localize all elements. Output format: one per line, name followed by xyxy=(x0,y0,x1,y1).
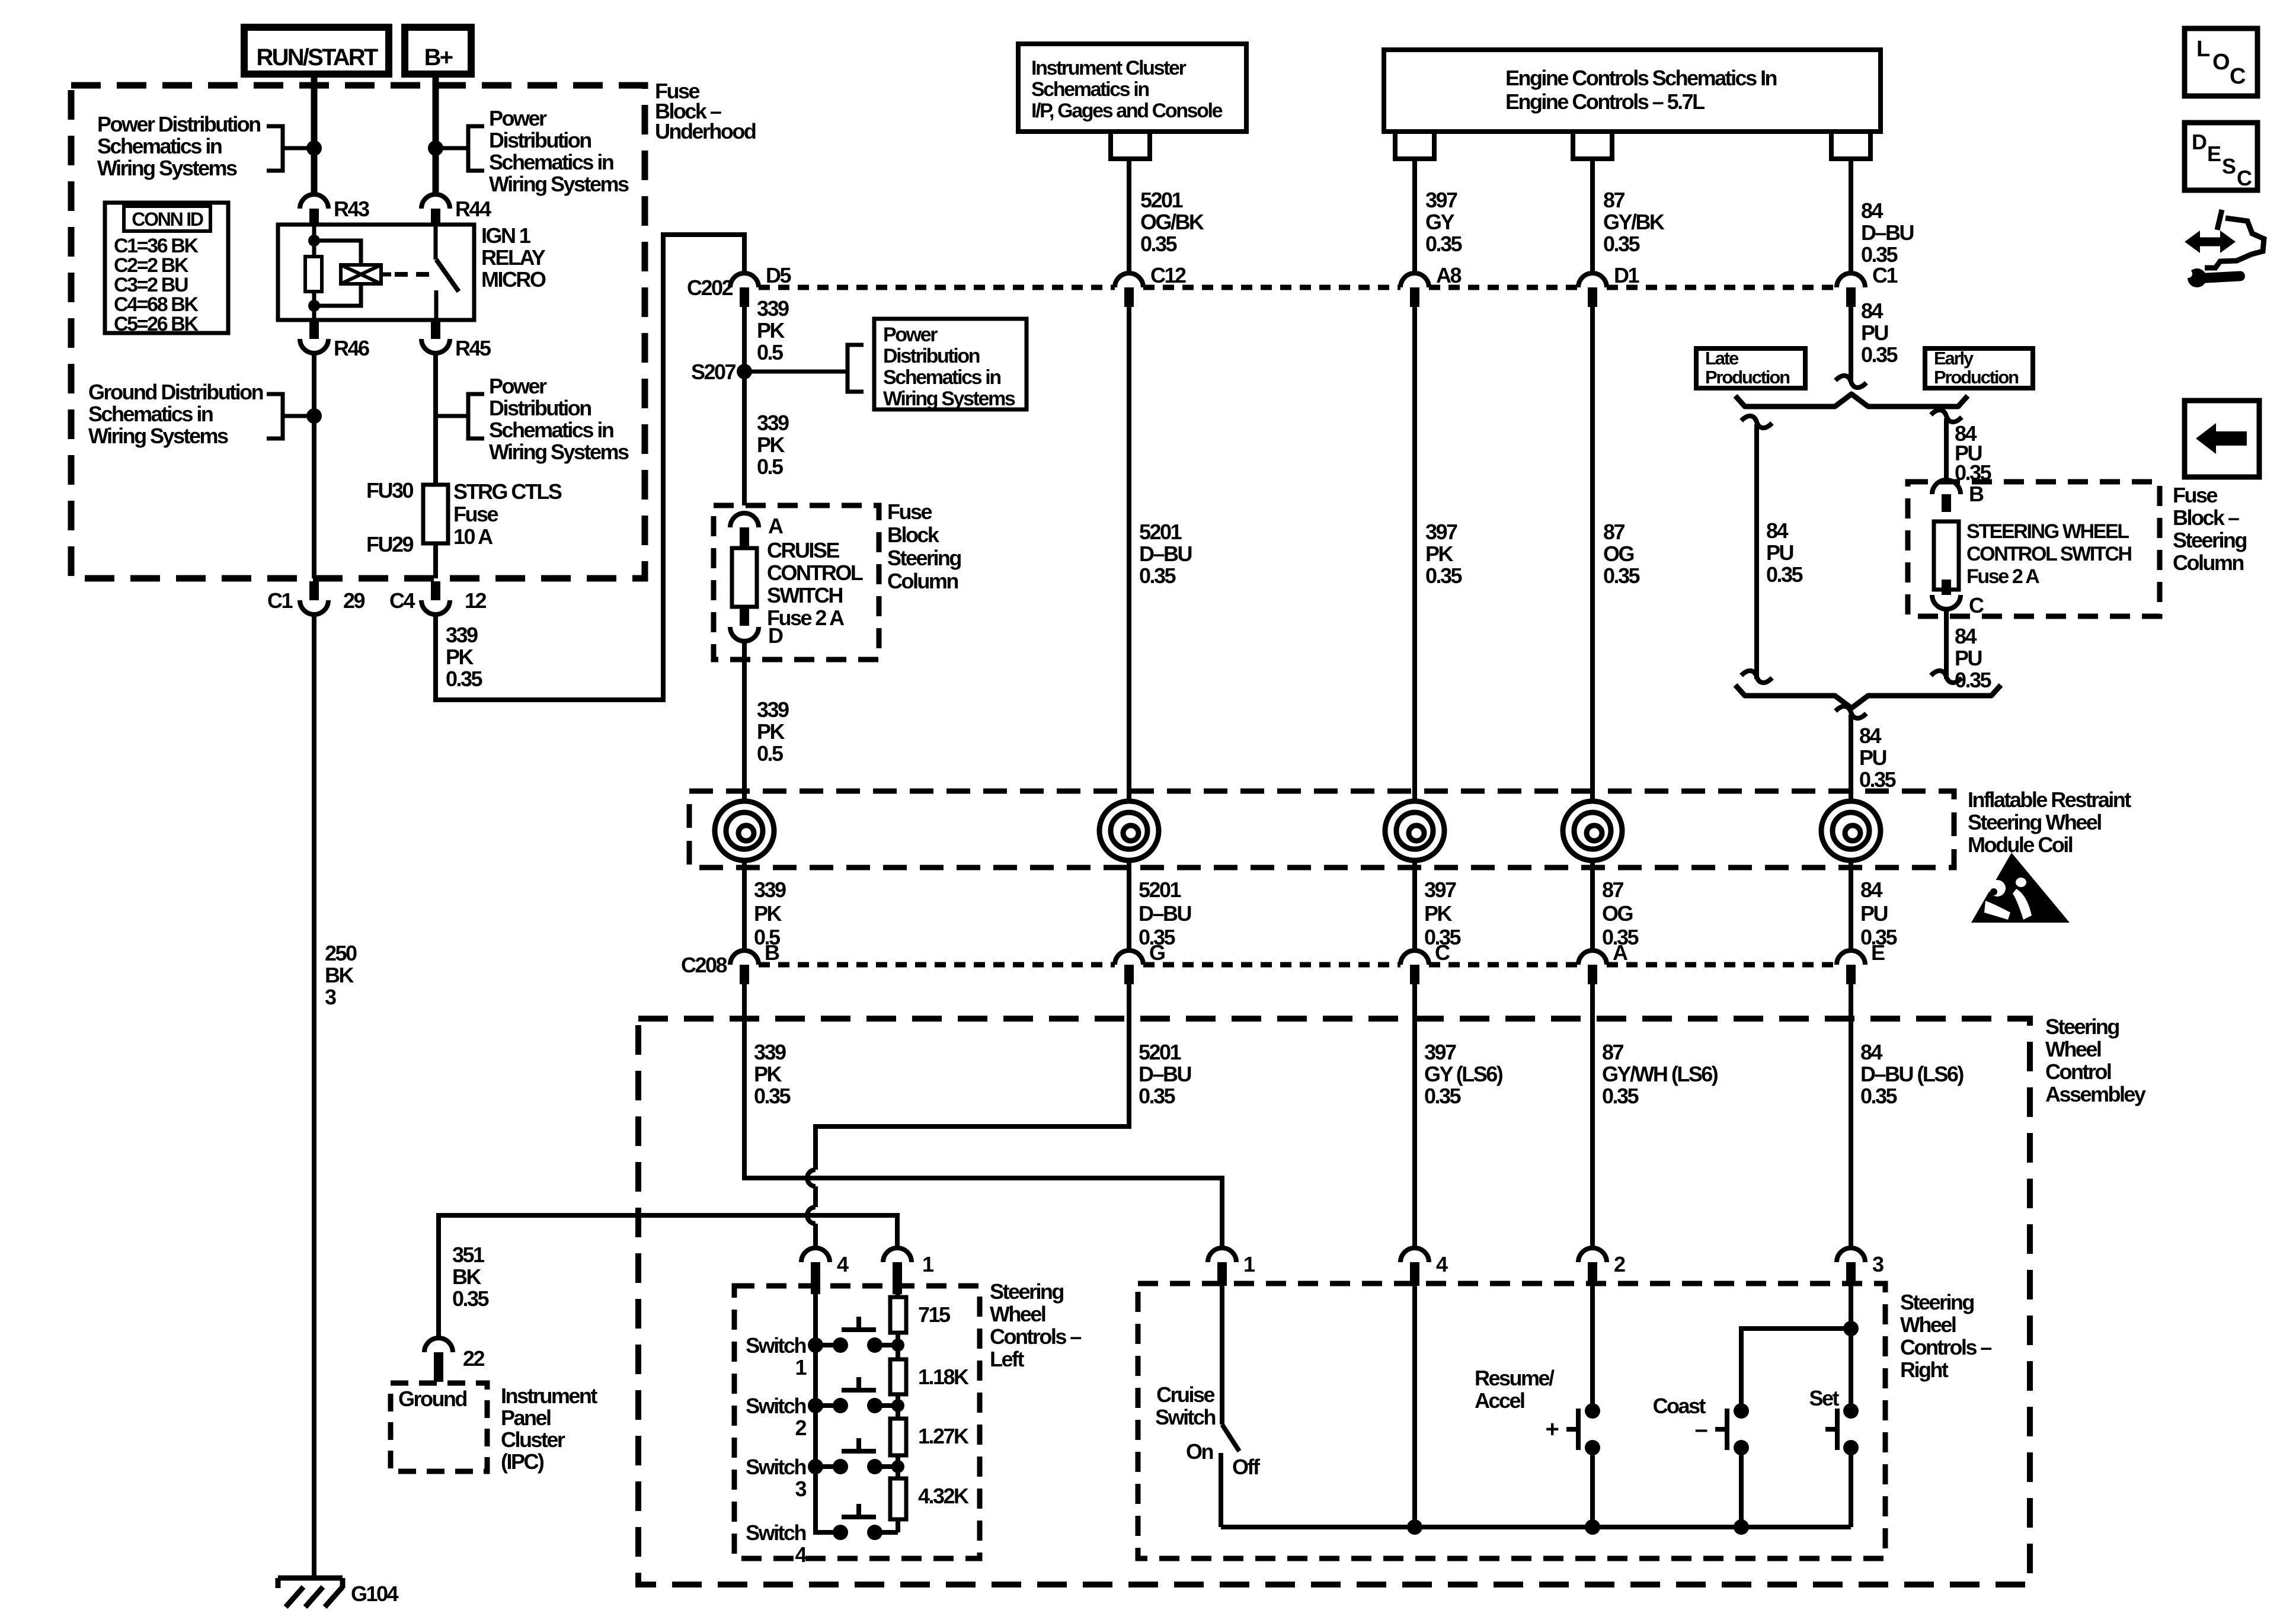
connector C208 pin B xyxy=(681,940,779,984)
svg-text:Power: Power xyxy=(883,324,938,346)
svg-text:Fuse 2 A: Fuse 2 A xyxy=(1966,565,2039,588)
brace merge bottom xyxy=(1735,685,2001,708)
wire 84 to set/coast node xyxy=(1849,1286,1853,1329)
wire early branch below C xyxy=(1944,609,1949,679)
svg-text:PK: PK xyxy=(757,719,785,744)
wire label 5201 D&#8211;BU (assembly) xyxy=(1139,1040,1191,1108)
svg-text:Panel: Panel xyxy=(501,1406,551,1430)
svg-text:2: 2 xyxy=(795,1416,806,1440)
wire chain segment 4 xyxy=(896,1467,900,1532)
wire curl late branch bottom xyxy=(1741,671,1772,683)
switch Set xyxy=(1809,1386,1859,1455)
svg-text:Wiring Systems: Wiring Systems xyxy=(883,388,1015,410)
fuse F1 CRUISE CONTROL SWITCH 2A xyxy=(732,538,863,630)
svg-text:87: 87 xyxy=(1603,520,1625,544)
svg-text:S207: S207 xyxy=(691,360,736,384)
connector C208 pin C xyxy=(1400,940,1450,984)
svg-text:Column: Column xyxy=(887,569,958,593)
svg-text:Control: Control xyxy=(2045,1060,2111,1084)
connector 1 (left) xyxy=(883,1248,934,1294)
svg-text:Wiring Systems: Wiring Systems xyxy=(489,172,629,196)
svg-text:Production: Production xyxy=(1934,367,2019,388)
svg-text:R44: R44 xyxy=(455,197,491,221)
svg-text:Steering: Steering xyxy=(990,1279,1063,1304)
svg-text:0.5: 0.5 xyxy=(757,340,784,364)
wire 397 to connector 4 right xyxy=(1412,984,1417,1248)
svg-text:Cluster: Cluster xyxy=(501,1427,565,1452)
svg-text:Switch: Switch xyxy=(746,1333,805,1358)
box Early Production xyxy=(1925,348,2033,388)
svg-text:SWITCH: SWITCH xyxy=(767,583,842,607)
wire 339 PK to cruise switch xyxy=(744,984,1222,1248)
svg-text:Block: Block xyxy=(887,523,940,547)
connector B (steering fuse) xyxy=(1932,480,1984,512)
label Fuse Block Steering Column (cruise) xyxy=(887,500,961,593)
icon airbag warning triangle xyxy=(1971,853,2070,923)
inductor coil 5 steering wheel module xyxy=(1821,801,1881,860)
switch 4 (left controls) xyxy=(746,1504,898,1567)
node power distribution junction (B+) xyxy=(428,140,443,156)
connector A (cruise fuse) xyxy=(730,513,784,549)
svg-text:0.35: 0.35 xyxy=(1424,1084,1461,1108)
svg-text:PK: PK xyxy=(757,433,785,457)
wire label 84 D-BU 0.35 xyxy=(1861,199,1913,267)
svg-text:4.32K: 4.32K xyxy=(918,1484,969,1508)
steering wheel controls right dashed box xyxy=(1138,1283,1885,1558)
connector C1 pin 29 xyxy=(267,581,364,614)
icon box arrow left xyxy=(2185,401,2259,477)
wire hop over 351 xyxy=(807,1207,816,1224)
connector C1 (engine) xyxy=(1837,263,1898,307)
note Power Distribution Schematics in Wiring Systems (left) xyxy=(97,112,314,180)
svg-text:C208: C208 xyxy=(681,953,727,977)
svg-text:Power Distribution: Power Distribution xyxy=(97,112,260,136)
svg-text:Steering: Steering xyxy=(2173,528,2246,552)
switch 1 (left controls) xyxy=(746,1317,904,1379)
svg-text:0.35: 0.35 xyxy=(1861,343,1898,367)
wire 87 to resume switch xyxy=(1590,1286,1595,1411)
wire label 84 PU (below coil) xyxy=(1860,878,1897,949)
connector R46 xyxy=(300,321,369,360)
svg-text:Resume/: Resume/ xyxy=(1475,1366,1555,1390)
svg-text:10 A: 10 A xyxy=(453,524,493,549)
wire label 339 PK (assembly) xyxy=(754,1040,791,1108)
relay U1 IGN 1 RELAY MICRO box xyxy=(278,225,474,320)
svg-text:CONN ID: CONN ID xyxy=(132,209,203,230)
inductor coil 1 steering wheel module xyxy=(715,801,774,860)
svg-text:Distribution: Distribution xyxy=(883,345,980,367)
resistor 1.18K ohm xyxy=(890,1359,969,1394)
relay switch blade xyxy=(436,260,459,292)
switch Resume/Accel xyxy=(1475,1366,1600,1455)
svg-text:RELAY: RELAY xyxy=(481,245,546,270)
svg-text:D5: D5 xyxy=(766,263,791,287)
connector 1 (cruise) xyxy=(1208,1248,1255,1286)
wire 339 PK C202 to S207 xyxy=(742,307,747,505)
svg-text:0.35: 0.35 xyxy=(1425,232,1462,256)
svg-text:351: 351 xyxy=(452,1243,485,1267)
fuse block steering column dashed box (cruise) xyxy=(714,505,879,660)
svg-text:0.35: 0.35 xyxy=(452,1286,489,1311)
svg-text:STRG CTLS: STRG CTLS xyxy=(453,479,562,504)
wire late production branch xyxy=(1754,424,1759,679)
svg-text:Wheel: Wheel xyxy=(2045,1037,2101,1061)
svg-text:Cruise: Cruise xyxy=(1156,1382,1214,1407)
label Steering Wheel Controls - Left xyxy=(990,1279,1081,1371)
connector 4 (right) xyxy=(1400,1248,1448,1286)
node S207 splice xyxy=(691,360,752,384)
connector 2 (right) xyxy=(1578,1248,1625,1286)
svg-text:C5=26 BK: C5=26 BK xyxy=(114,313,199,335)
wire label 351 BK 0.35 xyxy=(452,1243,489,1311)
node relay bottom junction xyxy=(308,300,320,312)
svg-text:87: 87 xyxy=(1602,878,1624,902)
wire label 84 PU 0.35 (early branch) xyxy=(1955,421,1991,485)
svg-text:D1: D1 xyxy=(1614,263,1639,287)
svg-text:Instrument: Instrument xyxy=(501,1384,597,1408)
svg-text:C12: C12 xyxy=(1150,263,1186,287)
svg-text:0.35: 0.35 xyxy=(1860,1084,1897,1108)
net C202 connector row dotted line xyxy=(759,285,1837,290)
svg-text:0.35: 0.35 xyxy=(1603,564,1640,588)
label Inflatable Restraint Steering Wheel Module Coil xyxy=(1968,788,2131,857)
label IGN 1 RELAY MICRO xyxy=(481,223,546,292)
svg-text:Early: Early xyxy=(1934,348,1974,369)
node resume bus junction xyxy=(1585,1519,1600,1535)
svg-text:4: 4 xyxy=(795,1542,807,1567)
ground G104 xyxy=(278,1578,398,1607)
node 397 bus junction xyxy=(1407,1519,1422,1535)
svg-text:Accel: Accel xyxy=(1475,1388,1524,1413)
svg-text:(IPC): (IPC) xyxy=(501,1449,544,1474)
connector C4 pin 12 xyxy=(389,581,486,614)
wire hop over 339 xyxy=(807,1170,816,1186)
svg-text:Late: Late xyxy=(1705,348,1739,369)
svg-text:OG/BK: OG/BK xyxy=(1140,210,1204,234)
svg-text:D–BU: D–BU xyxy=(1139,542,1191,566)
svg-text:4: 4 xyxy=(1436,1252,1448,1276)
svg-text:S: S xyxy=(2222,154,2236,178)
wire 397 PK A8 to coil xyxy=(1412,307,1417,801)
svg-text:C1: C1 xyxy=(267,588,293,613)
wire early branch to B xyxy=(1944,418,1949,480)
svg-text:MICRO: MICRO xyxy=(481,267,546,292)
svg-text:3: 3 xyxy=(325,985,336,1009)
switch 3 (left controls) xyxy=(746,1438,904,1501)
svg-text:D–BU: D–BU xyxy=(1861,220,1913,245)
svg-text:397: 397 xyxy=(1424,1040,1456,1064)
wire coast branch xyxy=(1741,1329,1851,1411)
wire 84 PU C1 to split xyxy=(1849,307,1853,380)
svg-text:Fuse: Fuse xyxy=(2173,483,2217,507)
connector C208 pin E xyxy=(1837,940,1885,984)
wire 339 PK D to coil xyxy=(742,641,747,801)
svg-text:G104: G104 xyxy=(351,1582,398,1606)
svg-text:PU: PU xyxy=(1955,646,1981,670)
connector D1 xyxy=(1578,263,1639,307)
svg-text:C202: C202 xyxy=(687,276,733,300)
svg-text:87: 87 xyxy=(1602,1040,1624,1064)
svg-text:IGN 1: IGN 1 xyxy=(481,223,531,248)
wire R45 to fuse FU30 xyxy=(433,353,438,485)
svg-text:Fuse: Fuse xyxy=(887,500,932,524)
svg-text:Engine Controls Schematics In: Engine Controls Schematics In xyxy=(1505,66,1777,90)
wire curl early branch top xyxy=(1931,410,1962,422)
svg-text:Controls –: Controls – xyxy=(990,1324,1081,1349)
svg-text:+: + xyxy=(1545,1416,1558,1442)
svg-text:339: 339 xyxy=(757,697,789,722)
svg-text:397: 397 xyxy=(1425,188,1457,212)
resistor 715 ohm xyxy=(890,1297,951,1333)
svg-text:Schematics in: Schematics in xyxy=(88,402,213,426)
relay switch wire xyxy=(436,225,436,320)
node coast bus junction xyxy=(1734,1519,1749,1535)
svg-text:D–BU: D–BU xyxy=(1139,1062,1191,1086)
node relay top junction xyxy=(308,235,320,247)
svg-text:Power: Power xyxy=(489,374,547,398)
wire label 339 PK 0.35 (below C4) xyxy=(446,623,482,691)
wire 5201 D-BU C12 to coil xyxy=(1127,307,1131,801)
box Late Production xyxy=(1696,348,1805,388)
connector A8 xyxy=(1400,263,1461,307)
power feed box RUN/START xyxy=(244,27,389,74)
svg-text:Distribution: Distribution xyxy=(489,396,591,420)
switch cruise on/off xyxy=(1155,1286,1261,1527)
wire 84 coil to C208 xyxy=(1849,860,1853,952)
svg-text:PK: PK xyxy=(754,901,782,926)
connector 4 (left) xyxy=(801,1248,849,1294)
wire curl early branch bottom xyxy=(1931,671,1962,683)
wire 84 to connector 3 xyxy=(1849,984,1853,1248)
wire left chain top xyxy=(897,1294,898,1297)
svg-text:5201: 5201 xyxy=(1139,520,1182,544)
svg-text:Switch: Switch xyxy=(1155,1405,1215,1429)
wire set branch xyxy=(1849,1329,1853,1411)
fuse FU30 STRG CTLS 10A xyxy=(366,478,562,556)
svg-text:O: O xyxy=(2212,50,2229,75)
fuse block steering column dashed box (right) xyxy=(1908,482,2160,616)
wire 397 GY to A8 xyxy=(1412,159,1417,273)
svg-text:Engine Controls – 5.7L: Engine Controls – 5.7L xyxy=(1505,89,1705,114)
wire 397 to bus xyxy=(1412,1286,1417,1527)
svg-text:PK: PK xyxy=(754,1062,782,1086)
wire left switch bus xyxy=(816,1294,840,1532)
svg-text:0.35: 0.35 xyxy=(1139,564,1176,588)
wire label 339 PK 0.5 (below fuse box) xyxy=(757,697,789,766)
wire label 84 D&#8211;BU (LS6) (assembly) xyxy=(1860,1040,1964,1108)
wire curl late branch top xyxy=(1741,416,1772,428)
connector C12 xyxy=(1115,263,1186,307)
wire 87 coil to C208 xyxy=(1590,860,1595,952)
svg-text:Wheel: Wheel xyxy=(990,1302,1045,1326)
svg-text:B: B xyxy=(765,940,779,965)
svg-text:Controls –: Controls – xyxy=(1900,1335,1991,1359)
relay coil feed wire xyxy=(312,225,316,320)
resistor 1.27K ohm xyxy=(890,1419,969,1455)
svg-text:Column: Column xyxy=(2173,550,2243,575)
wire C4 to C202 wrap-around xyxy=(436,235,744,700)
svg-text:C4: C4 xyxy=(389,588,415,613)
wire label 84 PU 0.35 (above split) xyxy=(1861,299,1898,367)
svg-text:0.35: 0.35 xyxy=(1859,767,1896,792)
svg-text:CRUISE: CRUISE xyxy=(767,538,839,562)
svg-text:22: 22 xyxy=(463,1346,485,1371)
note Power Distribution Schematics in Wiring Systems (B+ bottom) xyxy=(436,374,629,464)
svg-text:Assembley: Assembley xyxy=(2045,1082,2146,1106)
svg-text:5201: 5201 xyxy=(1139,878,1182,902)
wire 84 D-BU to C1 xyxy=(1849,159,1853,273)
svg-text:PU: PU xyxy=(1766,540,1793,565)
svg-text:Wheel: Wheel xyxy=(1900,1313,1956,1337)
svg-text:D–BU: D–BU xyxy=(1139,901,1191,926)
relay mechanical link dashes xyxy=(395,272,433,277)
switch 2 (left controls) xyxy=(746,1377,904,1440)
svg-text:Schematics in: Schematics in xyxy=(97,134,222,158)
svg-text:84: 84 xyxy=(1766,518,1789,543)
svg-text:0.5: 0.5 xyxy=(757,454,784,479)
wire R46 to C1 xyxy=(312,353,316,578)
svg-text:Off: Off xyxy=(1232,1455,1261,1479)
svg-text:PK: PK xyxy=(1424,901,1452,926)
svg-text:0.35: 0.35 xyxy=(754,1084,791,1108)
svg-text:12: 12 xyxy=(465,588,487,613)
label Steering Wheel Controls - Right xyxy=(1900,1290,1991,1382)
svg-text:STEERING WHEEL: STEERING WHEEL xyxy=(1966,520,2129,543)
svg-text:GY: GY xyxy=(1425,210,1454,234)
svg-text:339: 339 xyxy=(754,878,786,902)
svg-text:BK: BK xyxy=(325,963,354,987)
svg-text:D: D xyxy=(2192,130,2207,154)
svg-text:Module Coil: Module Coil xyxy=(1968,833,2073,857)
svg-text:Steering: Steering xyxy=(887,546,961,570)
wire label 250 BK 3 xyxy=(325,941,357,1009)
svg-text:CONTROL: CONTROL xyxy=(767,561,863,585)
svg-text:Switch: Switch xyxy=(746,1521,805,1545)
fuse F2 STEERING WHEEL CONTROL SWITCH 2A xyxy=(1934,520,2132,590)
wire label 5201 OG/BK 0.35 xyxy=(1140,188,1204,256)
connector 3 (right) xyxy=(1837,1248,1884,1286)
svg-text:1: 1 xyxy=(795,1355,807,1379)
svg-text:GY/WH (LS6): GY/WH (LS6) xyxy=(1602,1062,1718,1086)
svg-text:I/P, Gages and Console: I/P, Gages and Console xyxy=(1031,100,1223,122)
table CONN ID xyxy=(105,203,228,335)
wire resume to bus xyxy=(1590,1448,1595,1527)
svg-text:On: On xyxy=(1186,1439,1213,1464)
wire label 87 GY/BK 0.35 xyxy=(1603,188,1665,256)
svg-text:1.27K: 1.27K xyxy=(918,1424,969,1448)
svg-text:C: C xyxy=(1969,593,1984,617)
svg-text:397: 397 xyxy=(1424,878,1456,902)
wire label 87 GY/WH (LS6) (assembly) xyxy=(1602,1040,1718,1108)
svg-text:Inflatable Restraint: Inflatable Restraint xyxy=(1968,788,2131,812)
wire 87 to connector 2 xyxy=(1590,984,1595,1248)
svg-text:Schematics in: Schematics in xyxy=(489,418,613,442)
wire label 84 PU 0.35 (above coil) xyxy=(1859,724,1896,792)
wire 5201 coil to C208 xyxy=(1127,860,1131,952)
svg-text:84: 84 xyxy=(1955,624,1977,648)
svg-text:1: 1 xyxy=(1243,1252,1255,1276)
resistor relay internal xyxy=(305,257,322,292)
svg-text:339: 339 xyxy=(446,623,478,647)
wire label 84 PU 0.35 (below C) xyxy=(1955,624,1991,692)
connector R45 xyxy=(421,321,491,360)
svg-text:339: 339 xyxy=(754,1040,786,1064)
svg-text:Right: Right xyxy=(1900,1358,1949,1382)
svg-text:0.35: 0.35 xyxy=(1603,232,1640,256)
wire label 339 PK (below coil) xyxy=(754,878,786,949)
wire curl below merge xyxy=(1835,706,1866,718)
svg-text:Wiring Systems: Wiring Systems xyxy=(97,156,237,180)
svg-text:Switch: Switch xyxy=(746,1455,805,1479)
svg-text:Production: Production xyxy=(1705,367,1790,388)
module box Engine Controls xyxy=(1384,50,1881,132)
svg-text:PU: PU xyxy=(1859,745,1886,770)
svg-text:339: 339 xyxy=(757,411,789,435)
wire label 5201 D-BU 0.35 (mid) xyxy=(1139,520,1191,588)
inductor coil 4 steering wheel module xyxy=(1563,801,1622,860)
svg-text:0.35: 0.35 xyxy=(1602,1084,1639,1108)
svg-text:A8: A8 xyxy=(1436,263,1461,287)
wire chain segment 1 xyxy=(896,1294,900,1345)
icon box LOC xyxy=(2185,28,2257,96)
svg-text:OG: OG xyxy=(1603,542,1633,566)
note Ground Distribution Schematics in Wiring Systems xyxy=(88,380,314,448)
svg-text:L: L xyxy=(2196,37,2210,62)
svg-text:Power: Power xyxy=(489,106,547,130)
svg-text:Block –: Block – xyxy=(2173,505,2239,530)
svg-text:4: 4 xyxy=(837,1252,849,1276)
wire label 5201 D&#8211;BU (below coil) xyxy=(1139,878,1191,949)
svg-text:PU: PU xyxy=(1861,321,1888,345)
svg-text:Schematics in: Schematics in xyxy=(883,366,1000,389)
label Steering Wheel Control Assembley xyxy=(2045,1014,2146,1106)
wire RUN/START to R43 xyxy=(311,74,318,196)
inductor coil 2 steering wheel module xyxy=(1099,801,1159,860)
connector D (cruise fuse) xyxy=(730,607,783,648)
module box Instrument Cluster xyxy=(1018,44,1246,132)
wire label 87 OG 0.35 (mid) xyxy=(1603,520,1640,588)
wire fuse to C4 xyxy=(433,543,438,578)
label Ground (IPC) xyxy=(398,1387,466,1411)
connector R43 xyxy=(300,194,369,225)
svg-text:Schematics in: Schematics in xyxy=(1031,78,1149,101)
svg-text:PK: PK xyxy=(757,318,785,343)
fuse block underhood dashed box xyxy=(71,85,645,578)
svg-text:C1: C1 xyxy=(1872,263,1898,287)
svg-text:E: E xyxy=(1871,940,1885,965)
wire coast to bus xyxy=(1739,1448,1744,1527)
svg-text:PU: PU xyxy=(1860,901,1887,926)
label Fuse Block - Steering Column (right) xyxy=(2173,483,2246,575)
wire label 339 PK 0.5 (above S207) xyxy=(757,296,789,364)
svg-text:3: 3 xyxy=(1872,1252,1884,1276)
relay coil element xyxy=(341,265,391,284)
inductor coil 3 steering wheel module xyxy=(1385,801,1444,860)
svg-text:Steering: Steering xyxy=(2045,1014,2119,1039)
svg-text:0.35: 0.35 xyxy=(1140,232,1177,256)
svg-text:87: 87 xyxy=(1603,188,1625,212)
svg-text:397: 397 xyxy=(1425,520,1457,544)
svg-text:RUN/START: RUN/START xyxy=(257,44,378,71)
svg-text:Fuse: Fuse xyxy=(453,502,498,526)
wire 5201 D-BU jog to connector 4 xyxy=(816,984,1129,1248)
svg-text:G: G xyxy=(1149,940,1165,965)
svg-text:0.35: 0.35 xyxy=(1766,562,1803,587)
wire 397 coil to C208 xyxy=(1412,860,1417,952)
svg-text:5201: 5201 xyxy=(1139,1040,1182,1064)
svg-text:R45: R45 xyxy=(455,336,491,360)
svg-text:OG: OG xyxy=(1602,901,1632,926)
